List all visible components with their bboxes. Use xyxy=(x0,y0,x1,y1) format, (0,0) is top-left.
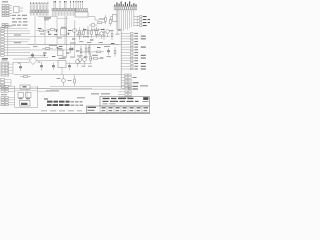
transistor Q5 xyxy=(83,58,87,65)
wire xyxy=(28,57,48,59)
resistor R4 xyxy=(36,30,47,32)
capacitor C5 xyxy=(68,63,71,71)
value label xyxy=(109,29,114,32)
value label xyxy=(99,19,105,20)
transistor Q10 xyxy=(106,30,110,37)
resistor R22 xyxy=(80,46,82,57)
resistor R19 xyxy=(83,28,85,39)
IC U10 xyxy=(14,7,24,13)
connector J5 xyxy=(114,1,137,10)
value label xyxy=(18,62,21,65)
wire xyxy=(61,68,63,75)
wire xyxy=(80,51,93,53)
transistor Q4 xyxy=(76,60,80,67)
capacitor C6 xyxy=(69,46,72,53)
wire xyxy=(38,15,57,17)
connector J3 xyxy=(52,1,76,16)
connector J1 xyxy=(2,1,12,16)
wire xyxy=(56,16,58,45)
relay K1 xyxy=(18,93,24,100)
resistor R6 xyxy=(87,26,89,38)
wire xyxy=(4,80,11,86)
title block xyxy=(87,97,150,113)
value label xyxy=(49,44,57,47)
resistor R14 xyxy=(74,75,76,87)
resistor R17 xyxy=(90,58,101,60)
transistor Q11 xyxy=(47,30,50,33)
transistor Q6 xyxy=(62,75,66,87)
net label xyxy=(46,90,59,91)
value label xyxy=(57,77,61,80)
resistor R3 xyxy=(110,17,112,26)
value label xyxy=(82,65,86,68)
resistor R9 xyxy=(42,48,53,50)
value label xyxy=(77,55,83,58)
sheet note xyxy=(101,93,110,94)
connector J12 xyxy=(1,79,5,87)
value label xyxy=(93,54,98,57)
connector J11 xyxy=(1,59,13,76)
resistor R12 xyxy=(90,53,92,64)
value label xyxy=(88,65,92,68)
bridge rectifier BR1 xyxy=(13,57,38,65)
wire xyxy=(37,60,58,62)
wire xyxy=(28,44,121,46)
wire xyxy=(26,89,28,101)
wire xyxy=(14,74,121,76)
IC U2 xyxy=(61,27,67,35)
revision label xyxy=(140,85,148,86)
pin labels xyxy=(12,15,28,26)
wire xyxy=(0,88,92,90)
wire xyxy=(57,18,68,20)
transistor Q13 xyxy=(67,32,70,35)
resistor R8 xyxy=(103,28,105,40)
reference labels xyxy=(38,28,121,58)
resistor R23 xyxy=(88,45,90,56)
wire xyxy=(44,16,46,45)
transistor Q3 xyxy=(76,33,81,40)
transistor Q1 xyxy=(89,23,97,27)
wire xyxy=(66,63,92,65)
connector J7 xyxy=(1,27,119,59)
value label xyxy=(70,42,76,45)
value label xyxy=(84,35,89,38)
value label xyxy=(62,56,67,59)
value label xyxy=(57,37,62,40)
value label xyxy=(33,45,38,48)
value label xyxy=(107,55,112,58)
connector J4 xyxy=(75,1,88,17)
connector J1B xyxy=(2,24,8,28)
wire xyxy=(116,10,118,33)
resistor R20 xyxy=(91,27,93,38)
resistor R13 xyxy=(20,76,31,78)
wire xyxy=(34,16,36,45)
transformer T1 xyxy=(20,85,38,89)
border line xyxy=(0,112,150,114)
sheet note xyxy=(77,97,85,98)
notes text xyxy=(41,99,83,112)
net label xyxy=(44,17,51,18)
sheet note xyxy=(91,93,99,94)
capacitor C2 xyxy=(19,64,22,72)
resistor R2 xyxy=(105,15,107,24)
value label xyxy=(116,33,120,36)
connector J13 xyxy=(1,86,15,93)
wire bus xyxy=(117,10,134,88)
transistor Q2 xyxy=(71,29,76,36)
resistor R5 xyxy=(47,29,58,31)
value label xyxy=(95,34,100,37)
net label xyxy=(14,35,21,36)
transistor Q16 xyxy=(43,54,46,57)
wire xyxy=(12,63,14,75)
connector J10 xyxy=(50,86,138,98)
wire xyxy=(38,90,51,92)
resistor R18 xyxy=(79,28,81,39)
connector J2 xyxy=(30,2,48,15)
resistor R10 xyxy=(85,45,87,57)
wire xyxy=(88,17,99,21)
resistor R1 xyxy=(98,22,106,24)
resistor R21 xyxy=(96,27,98,38)
wire xyxy=(15,90,38,92)
diode D2 xyxy=(114,47,116,57)
resistor R11 xyxy=(93,51,104,53)
transistor Q8 xyxy=(78,55,82,64)
net label xyxy=(14,42,21,43)
net label xyxy=(6,25,12,26)
value label xyxy=(70,56,75,59)
cluster frame xyxy=(15,86,38,108)
connector J14 xyxy=(1,94,15,106)
transistor Q14 xyxy=(56,46,59,49)
value label xyxy=(87,41,92,44)
value label xyxy=(38,61,41,64)
wire xyxy=(64,16,66,45)
transistor Q15 xyxy=(71,47,74,50)
capacitor C7 xyxy=(107,48,110,55)
value label xyxy=(79,40,84,43)
wire xyxy=(74,20,76,58)
capacitor C3 xyxy=(40,62,43,71)
connector J8 xyxy=(121,33,145,70)
value label xyxy=(40,33,45,36)
IC U11 xyxy=(110,15,117,22)
value label xyxy=(104,45,110,48)
transistor Q12 xyxy=(55,29,58,32)
wire xyxy=(77,30,99,32)
relay K2 xyxy=(26,93,32,100)
wire xyxy=(38,88,51,90)
capacitor C1 xyxy=(31,53,34,59)
transistor Q9 xyxy=(100,32,104,39)
resistor R7 xyxy=(91,29,102,31)
speaker LS1 xyxy=(20,101,31,107)
IC U3 xyxy=(58,48,64,55)
wire xyxy=(124,74,126,90)
wire xyxy=(66,16,68,58)
regulator U4 xyxy=(58,58,66,68)
net label xyxy=(44,19,49,20)
value label xyxy=(68,79,72,82)
value label xyxy=(99,41,104,44)
wire xyxy=(89,45,91,57)
wire xyxy=(120,28,122,89)
connector J6 xyxy=(134,16,152,27)
diode D1 xyxy=(111,30,113,40)
connector J9 xyxy=(121,74,138,89)
capacitor C4 xyxy=(52,63,55,71)
value label xyxy=(92,54,98,57)
